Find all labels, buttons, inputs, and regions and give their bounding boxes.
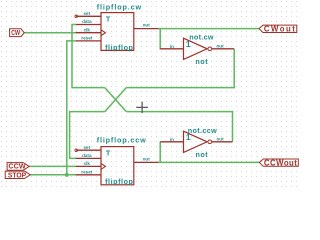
- svg-text:out: out: [217, 44, 225, 49]
- origin marker: [136, 102, 148, 113]
- wire up to flipflop.cw data: [72, 25, 76, 89]
- svg-text:flipflop.cw: flipflop.cw: [97, 3, 142, 12]
- svg-text:T: T: [106, 148, 111, 157]
- wire cross top-right horizontal: [126, 87, 235, 89]
- svg-text:data: data: [82, 19, 92, 24]
- svg-text:not: not: [195, 57, 208, 66]
- wire tap down to not.cw input: [159, 29, 161, 50]
- wire STOP up to flipflop.cw reset: [67, 41, 76, 175]
- svg-text:reset: reset: [81, 170, 92, 175]
- not.cw pin in: [160, 44, 183, 49]
- flipflop.ccw pin out: [134, 156, 159, 162]
- svg-text:reset: reset: [81, 36, 92, 41]
- svg-text:out: out: [143, 156, 151, 161]
- svg-text:1: 1: [186, 132, 191, 142]
- not.ccw pin in: [160, 137, 183, 142]
- wire flipflop.ccw out to CCWout: [158, 161, 259, 163]
- svg-text:CCW: CCW: [8, 162, 26, 171]
- svg-text:T: T: [106, 14, 111, 23]
- flip-flop U3 flipflop.ccw: [97, 135, 146, 186]
- flipflop.cw pin reset: [76, 36, 101, 41]
- wire not.cw out drop to cross: [233, 49, 235, 89]
- wire flipflop.cw out to CWout: [158, 28, 259, 30]
- svg-text:clk: clk: [84, 161, 91, 166]
- wire STOP to resets: [30, 174, 76, 176]
- wire cross bottom-right horizontal: [126, 111, 233, 113]
- svg-text:CCWout: CCWout: [264, 159, 297, 168]
- flipflop.cw pin out: [134, 23, 159, 29]
- junction: [65, 173, 69, 177]
- svg-text:out: out: [217, 137, 225, 142]
- flipflop.cw pin data: [76, 19, 101, 24]
- not.ccw pin out: [212, 137, 233, 142]
- output tag CCWout: [259, 159, 298, 168]
- flipflop.ccw pin clk: [76, 161, 106, 169]
- wire tap up to not.ccw input: [159, 142, 161, 163]
- wire CCW to flipflop.ccw clk: [29, 165, 76, 167]
- svg-text:not.ccw: not.ccw: [188, 126, 217, 135]
- svg-text:not: not: [196, 150, 209, 159]
- svg-text:1: 1: [186, 39, 191, 49]
- inverter U4 not.ccw: [184, 126, 218, 159]
- svg-text:in: in: [170, 44, 174, 49]
- svg-text:CW: CW: [11, 28, 20, 37]
- wire down to flipflop.ccw data: [70, 111, 76, 158]
- flipflop.cw pin set: [75, 11, 101, 18]
- svg-text:flipflop: flipflop: [105, 177, 133, 186]
- svg-text:flipflop.ccw: flipflop.ccw: [97, 135, 146, 144]
- svg-text:not.cw: not.cw: [189, 32, 214, 41]
- wire not.ccw out riser to cross: [232, 111, 234, 142]
- svg-text:set: set: [83, 145, 90, 150]
- svg-text:set: set: [83, 11, 90, 16]
- flipflop.cw pin clk: [76, 27, 106, 35]
- flip-flop U1 flipflop.cw: [97, 3, 142, 53]
- input tag CCW: [7, 162, 29, 171]
- svg-text:flipflop: flipflop: [105, 43, 133, 52]
- input tag CW: [10, 28, 25, 37]
- svg-text:in: in: [170, 137, 174, 142]
- wire CW to flipflop.cw clk: [24, 32, 76, 34]
- wire cross top-left horizontal: [72, 87, 105, 89]
- flipflop.ccw pin reset: [76, 170, 101, 175]
- inverter U2 not.cw: [184, 32, 214, 66]
- wire cross bottom-left horizontal: [70, 111, 105, 113]
- wire cross diagonal down-left: [105, 88, 127, 112]
- svg-text:CWout: CWout: [264, 25, 295, 34]
- svg-text:out: out: [143, 23, 151, 28]
- input tag STOP: [5, 170, 30, 179]
- svg-text:STOP: STOP: [8, 170, 26, 179]
- flipflop.ccw pin set: [75, 145, 101, 152]
- svg-text:data: data: [82, 153, 92, 158]
- output tag CWout: [259, 25, 297, 34]
- flipflop.ccw pin data: [76, 153, 101, 158]
- svg-text:clk: clk: [84, 27, 91, 32]
- wire cross diagonal up-right: [105, 88, 127, 112]
- not.cw pin out: [212, 44, 235, 49]
